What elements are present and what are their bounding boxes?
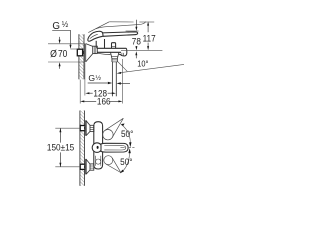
hose lines going down <box>112 62 116 96</box>
dimension 117 <box>143 22 156 51</box>
lever handle (bottom view) <box>101 143 128 152</box>
G 1/2 label lower (hose thread) <box>88 73 130 85</box>
spout end detail inside tube <box>96 156 101 166</box>
svg-text:78: 78 <box>132 36 141 47</box>
bottom escutcheon (bottom view) <box>85 159 94 175</box>
lower swing arc with arrows <box>122 153 130 172</box>
wall section (bottom view) <box>80 111 85 186</box>
wall section (top view) <box>79 34 84 79</box>
dimension 166 <box>80 96 122 107</box>
upper swing arc with arrows <box>122 125 131 143</box>
raised handle phantom outline <box>88 22 145 33</box>
svg-text:Ø: Ø <box>50 48 57 59</box>
lever handle arm (top view) <box>102 32 138 37</box>
concealed union square in wall (top view) <box>77 49 84 56</box>
spout right end with aerator <box>98 48 127 56</box>
body tube (bottom view) <box>94 122 103 169</box>
svg-text:70: 70 <box>58 48 67 59</box>
shower outlet tube (top view) <box>111 52 119 62</box>
top union square (bottom view) <box>80 126 85 131</box>
dia 70 dimension <box>48 37 85 69</box>
dimension 150+-15 <box>47 128 74 167</box>
diverter knob on body top <box>112 43 116 49</box>
upper rotated handle outline 50deg <box>103 118 124 140</box>
lever handle grip (top view) <box>88 31 103 41</box>
svg-text:10°: 10° <box>137 59 148 69</box>
cartridge cap under grip <box>96 39 104 48</box>
union nut (top view) <box>93 46 98 53</box>
svg-text:117: 117 <box>143 33 156 44</box>
10 degree kinked leader to hose <box>117 62 184 74</box>
extension line A (raised handle top) <box>109 21 154 23</box>
10 degree dimension: up arrow on reference line <box>135 51 137 58</box>
supply extension lines (bottom view) <box>55 128 80 167</box>
extension line B (handle rest top) <box>126 30 139 32</box>
bottom union square (bottom view) <box>80 164 85 169</box>
dimension 78 <box>132 20 141 51</box>
extension lines for 128/166 <box>80 59 122 104</box>
extension line C (reference) <box>121 49 162 51</box>
cartridge dome (bottom view) <box>92 143 102 153</box>
mixer body cylinder (top view) <box>97 48 126 52</box>
svg-text:50°: 50° <box>121 129 133 140</box>
svg-text:G½: G½ <box>88 73 101 83</box>
dimension 128 <box>85 88 116 99</box>
escutcheon flange and cone (top view) <box>84 44 92 62</box>
G 1/2 label top-left <box>52 20 77 49</box>
handle inner detail <box>104 145 126 150</box>
svg-text:50°: 50° <box>120 157 132 168</box>
handle axis dashes <box>120 147 124 149</box>
lower rotated handle outline 50deg <box>104 156 121 173</box>
top escutcheon (bottom view) <box>85 120 94 136</box>
svg-text:166: 166 <box>97 96 111 107</box>
svg-text:150±15: 150±15 <box>47 142 74 153</box>
